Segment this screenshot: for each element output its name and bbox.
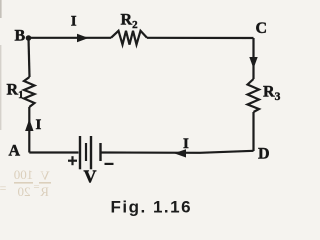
bleed-through fraction text (mirrored) bottom-left [0,167,51,199]
svg-text:Fig. 1.16: Fig. 1.16 [111,198,193,217]
current arrow I (top, pointing right) [77,34,89,42]
label minus [105,163,114,165]
wire: top segment R2 to C [147,37,254,39]
current arrow I (left wire, pointing up) [25,119,33,131]
wire: right segment R3 to D [252,112,254,151]
current arrow I (bottom, pointing left) [174,149,186,157]
current arrow I (right wire, pointing down) [249,57,257,69]
svg-text:=: = [33,181,39,193]
svg-text:R: R [40,184,49,199]
svg-text:I: I [71,14,77,30]
wire: bottom segment D to battery [101,151,254,153]
svg-text:V: V [84,167,97,187]
svg-text:A: A [9,143,21,160]
node B [26,35,32,41]
resistor R2 [111,31,147,45]
resistor R1 [24,77,35,107]
wire: bottom segment battery to A [29,151,78,153]
battery V [80,136,101,169]
svg-text:20: 20 [18,184,31,199]
wire: right segment C to R3 [252,38,254,79]
battery plate short [85,143,87,161]
wire: left segment R1 to B [29,38,30,77]
left edge scan smudge [0,0,2,18]
svg-text:V: V [40,168,50,183]
wire: left segment A to R1 [28,107,30,153]
resistor R3 [248,79,260,112]
battery plate long (left +) [79,136,81,169]
wire: top segment B to R2 [31,37,111,39]
svg-text:D: D [258,146,270,163]
svg-text:=: = [0,181,6,195]
svg-text:I: I [36,117,42,133]
svg-text:C: C [256,20,268,37]
label + [68,156,77,165]
svg-text:100: 100 [14,167,34,182]
battery plate short (right -) [99,143,101,161]
svg-text:I: I [183,136,189,152]
svg-text:B: B [15,28,26,45]
battery plate long [90,136,92,169]
